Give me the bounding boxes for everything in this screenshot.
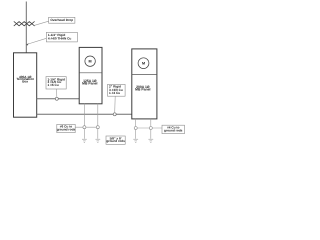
svg-text:ground rods: ground rods [164, 128, 183, 132]
ground: rod symbol 2 [95, 139, 100, 142]
node: tap junction on 125A feeder [55, 97, 58, 100]
panel: 125A MB panel [79, 47, 102, 103]
svg-text:MB Panel: MB Panel [82, 82, 97, 86]
svg-text:Overhead Drop: Overhead Drop [50, 18, 73, 22]
label: service riser conduit (1-1/4" Rigid, 4 #4/0 THHN Cu) [26, 32, 77, 45]
ground: rod symbol 4 [148, 139, 153, 142]
node: tap junction on 200A feeder [113, 113, 116, 116]
label: 200A feeder conduit (2" Rigid, 3 #3/0 Cu, 1 #4 Cu) [108, 84, 126, 112]
termination box [14, 53, 37, 117]
wire: feeder to 125A panel [37, 98, 79, 100]
svg-text:M: M [89, 60, 92, 64]
wire: ground conductor drop 1 (125A panel) [83, 104, 85, 139]
label: #4 Cu to ground rods [162, 125, 185, 133]
node: ground rod clamp 3 [134, 127, 137, 130]
wire: bonding jumper between rods (200A panel) [136, 127, 162, 129]
svg-text:ground rods: ground rods [106, 139, 125, 143]
ground: rod symbol 3 [133, 139, 138, 142]
svg-text:1 #6 Cu: 1 #6 Cu [48, 83, 59, 87]
wire: ground conductor drop 3 (200A panel) [135, 119, 137, 139]
wire: ground conductor drop 2 (125A panel) [97, 104, 99, 139]
svg-text:ground rods: ground rods [57, 128, 76, 132]
meter M1 (125A panel meter section) [79, 56, 102, 73]
label: 125A feeder conduit (1-1/4" Rigid, 3 #1/0 Cu, 1 #6 Cu) [46, 77, 66, 98]
svg-text:1 #4 Cu: 1 #4 Cu [109, 91, 120, 95]
panel: 200A MB panel [132, 49, 157, 119]
wire: ground conductor drop 4 (200A panel) [150, 119, 152, 139]
wire: feeder to 200A panel [37, 113, 132, 115]
svg-text:M: M [142, 62, 145, 66]
label: Overhead Drop [34, 17, 75, 25]
node: ground rod clamp 1 [83, 126, 86, 129]
ground: rod symbol 1 [82, 139, 87, 142]
label: 5/8" x 8' ground rods [106, 136, 125, 144]
wire: bonding jumper between rods (125A panel) [75, 126, 98, 128]
wire: overhead service drop (vertical service line) [25, 2, 27, 53]
node: ground rod clamp 4 [149, 127, 152, 130]
label: #6 Cu to ground rods [57, 124, 76, 132]
svg-text:4 #4/0 THHN Cu: 4 #4/0 THHN Cu [48, 37, 71, 41]
node: ground rod clamp 2 [96, 126, 99, 129]
meter M2 (200A panel meter section) [132, 58, 157, 75]
symbol: twisted overhead conductors (crossed zigzags) [14, 22, 34, 26]
svg-text:Box: Box [22, 80, 28, 84]
svg-text:MB Panel: MB Panel [135, 87, 150, 91]
